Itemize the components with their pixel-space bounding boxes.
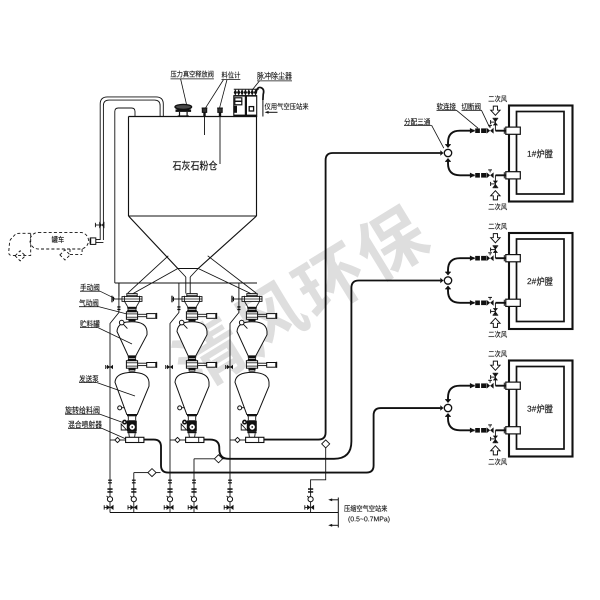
label (0.5-0.7MPa) [348,516,389,522]
leader 手动阀 [80,291,115,298]
level gauge sensor 1 [202,108,208,135]
label 手动阀 [80,284,99,291]
label 气动阀 [79,299,98,306]
relief valve 压力真空释放阀 [175,104,192,116]
silo label 石灰石粉仓 [173,161,218,171]
furnace 1 二次风 labels [489,95,507,102]
truck wheel 1 [15,251,25,261]
hopper chute to train 3 [198,256,256,294]
silo top inlet pipe elbow [115,108,135,283]
leader 料位计 [206,80,241,108]
air riser valve group at x=310.6 [305,488,314,510]
label 脉冲除尘器 [257,72,292,80]
conveying line C (train3 to furnace1) [264,153,440,440]
label 旋转给料阀 [65,406,99,414]
furnace 1 label [528,151,537,157]
leader 分配三通 [404,126,444,149]
conveying line A (train1 to furnace3) [144,408,440,473]
furnace 3 炉膛 with distribution tee and burners [440,361,572,457]
silo support frame line [115,283,257,297]
leader 软连接 [437,110,479,128]
air riser valve group at x=170 [164,480,173,510]
leader 混合喷射器 [68,428,126,438]
truck coupling [90,238,104,245]
leader 脉冲除尘器 [252,81,292,91]
label 发送泵 [79,375,98,382]
leader 贮料罐 [80,328,132,344]
booster riser for line C [311,440,330,513]
label 仪用气空压站来 [265,103,309,110]
instrument air arrow [265,111,278,114]
truck label 罐车 [52,236,64,243]
tank truck 罐车 body [30,232,89,249]
tank truck cab [9,233,31,255]
leader 旋转给料阀 [65,414,123,422]
silo 石灰石粉仓 body [129,117,257,269]
air riser valve group at x=133.8 [128,480,137,510]
hopper center funnel to train 2 [178,269,198,294]
label 切断阀 [462,103,481,110]
watermark 清风环保 [165,198,436,398]
label 混合喷射器 [68,421,102,429]
label 料位计 [222,71,240,78]
furnace 2 二次风 labels [489,223,507,230]
fill pipe outer line [100,97,163,240]
feeding train 3 (manual valve, pneumatic valves, storage tank, send pump, rotary feeder, ejector) [230,294,277,443]
air riser valve group at x=110 [104,480,113,510]
leader 发送泵 [79,383,135,396]
label 软连接 [437,103,456,110]
leader 切断阀 [462,110,490,127]
furnace 3 二次风 labels [489,350,507,357]
furnace 2 炉膛 with distribution tee and burners [440,233,572,329]
feeding train 2 (manual valve, pneumatic valves, storage tank, send pump, rotary feeder, ejector) [170,294,217,443]
truck rear frame [70,249,82,254]
air riser valve group at x=230 [224,480,233,510]
furnace 2 label [527,278,536,284]
air line left of train 1 [106,283,121,513]
feeding train 1 (manual valve, pneumatic valves, storage tank, send pump, rotary feeder, ejector) [110,294,157,443]
leader 压力真空释放阀 [171,79,214,104]
pulse dust collector 脉冲除尘器 [233,87,263,116]
level gauge sensor 2 [217,108,223,164]
fill pipe inner line [103,100,160,240]
label 压力真空释放阀 [171,71,214,78]
hopper chute to train 1 [128,256,178,294]
manifold end bracket [328,498,338,528]
furnace 3 label [527,406,536,412]
air line left of train 3 [226,283,241,513]
label 分配三通 [404,118,430,125]
conveying line B (train2 to furnace2) [204,281,440,459]
label 贮料罐 [80,320,99,327]
leader 气动阀 [79,307,126,314]
air riser valve group at x=194 [188,480,197,510]
fill pipe valve [95,222,104,229]
label 压缩空气空站来 [344,505,387,512]
air line left of train 2 [166,283,181,513]
furnace 1 炉膛 with distribution tee and burners [440,106,572,202]
compressed air manifold [110,512,338,514]
truck wheel 2 [60,250,70,260]
booster riser for line A [134,469,161,513]
booster riser for line B [194,455,228,513]
